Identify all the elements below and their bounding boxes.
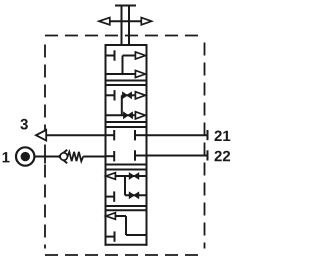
cell3 bottom-left bar bbox=[113, 151, 115, 161]
port 21 line bbox=[147, 134, 208, 136]
box5 bottom edge bbox=[105, 244, 148, 246]
cell5 blocked port bar bbox=[114, 231, 116, 241]
box4 bottom edge bbox=[105, 205, 148, 207]
cell3 top-right blocked stub bbox=[135, 134, 147, 136]
port 3 arrow bbox=[36, 130, 46, 141]
enclosure dashed border right bbox=[204, 43, 206, 249]
box1 bottom edge bbox=[105, 80, 148, 82]
check valve spring bbox=[68, 152, 84, 161]
cell1 upper flow line bbox=[123, 55, 137, 57]
cell3 top-left bar bbox=[113, 130, 115, 140]
cell4 branch vertical bbox=[124, 176, 126, 195]
cell4 lower check bowtie bbox=[129, 192, 138, 198]
box4 top edge bbox=[105, 169, 148, 171]
cell1 lower flow line bbox=[106, 73, 137, 75]
port 22 line bbox=[147, 155, 208, 157]
label port 21 bbox=[215, 131, 231, 142]
enclosure dashed border bottom bbox=[45, 254, 205, 256]
enclosure dash crossing port 1 line bbox=[44, 158, 46, 164]
cell3 bottom-right blocked stub bbox=[135, 155, 147, 157]
port 1 source dot bbox=[21, 152, 30, 161]
cell1 branch vertical bbox=[122, 56, 124, 75]
cell1 lower arrow bbox=[135, 70, 145, 77]
enclosure dashed border left bbox=[44, 45, 46, 249]
box5 top edge bbox=[105, 209, 148, 211]
cell1 upper arrow bbox=[135, 52, 145, 59]
port 22 boundary tick bbox=[207, 150, 209, 160]
label port 22 bbox=[215, 151, 231, 162]
box2 bottom edge bbox=[105, 121, 148, 123]
cell5 upper flow line bbox=[114, 215, 126, 217]
cell3 bottom-left blocked stub bbox=[106, 155, 115, 157]
pilot line right bbox=[128, 6, 130, 47]
cell4 left arrow bbox=[106, 173, 115, 180]
cell5 blocked port stub bbox=[106, 236, 115, 238]
cell5 branch vertical bbox=[125, 216, 127, 235]
cell4 blocked port stub bbox=[106, 196, 115, 198]
cell1 blocked port bar bbox=[114, 50, 116, 60]
box3 top edge bbox=[105, 126, 148, 128]
cell4 upper check bowtie bbox=[129, 173, 138, 179]
label port 3 bbox=[20, 119, 27, 130]
cell2 upper check bowtie bbox=[123, 92, 132, 98]
cell2 upper flow line bbox=[122, 94, 135, 96]
vent arrowhead left bbox=[99, 18, 110, 25]
bidirectional vent arrow line bbox=[108, 20, 143, 22]
cell4 upper flow line bbox=[114, 175, 147, 177]
enclosure dashed border top bbox=[45, 35, 205, 37]
cell2 branch vertical bbox=[121, 95, 123, 115]
cell2 lower flow line bbox=[106, 114, 136, 116]
port 1 source circle bbox=[16, 147, 34, 165]
cell2 lower arrow bbox=[135, 112, 145, 119]
cell3 bottom-right bar bbox=[134, 150, 136, 160]
cell3 top-right bar bbox=[134, 130, 136, 140]
label port 1 bbox=[3, 152, 10, 162]
check valve seat chevron bbox=[59, 150, 67, 163]
vent arrowhead right bbox=[141, 18, 151, 25]
cell2 blocked port stub bbox=[106, 94, 115, 96]
port 1 line to valve bbox=[83, 156, 105, 158]
cell2 upper arrow bbox=[135, 92, 145, 99]
cell5 lower flow line bbox=[126, 234, 147, 236]
check valve ball bbox=[60, 153, 67, 160]
valve body left rail bbox=[105, 44, 107, 246]
cell4 blocked port bar bbox=[113, 191, 115, 201]
valve body right rail bbox=[146, 44, 148, 246]
cell3 top-left blocked stub bbox=[106, 134, 115, 136]
cell1 blocked port stub bbox=[106, 55, 115, 57]
cell4 lower flow line bbox=[125, 194, 147, 196]
box1 top edge bbox=[105, 44, 148, 46]
port 21 boundary tick bbox=[207, 130, 209, 140]
box2 top edge bbox=[105, 84, 148, 86]
cell2 blocked port bar bbox=[114, 90, 116, 100]
pilot vent cap bbox=[115, 5, 136, 7]
box3 bottom edge bbox=[105, 164, 148, 166]
cell5 left arrow bbox=[106, 213, 115, 220]
cell2 lower check bowtie bbox=[124, 112, 133, 118]
port 3 line bbox=[46, 134, 106, 136]
pilot line left bbox=[121, 6, 123, 47]
port 1 line bbox=[35, 156, 60, 158]
